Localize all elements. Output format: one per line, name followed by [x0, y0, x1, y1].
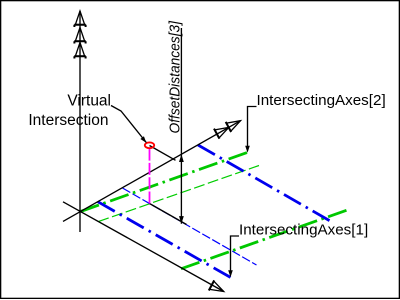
wire IntersectingAxes[2] extension (thin green dashed through plane point)	[98, 166, 259, 222]
dimension arrow bottom (points down)	[179, 216, 184, 224]
wire IntersectingAxes[1] extension (thin blue dashed through plane point)	[123, 188, 257, 265]
arrowheads of up-right axis (double open arrows)	[214, 121, 241, 139]
axis up-right construction line (30 deg)	[63, 121, 241, 222]
svg-text:OffsetDistances[3]: OffsetDistances[3]	[167, 20, 183, 133]
axis down-right construction line (30 deg)	[63, 202, 224, 292]
axis IntersectingAxes[2] segment A (green dash-dot from origin)	[81, 153, 248, 212]
dimension arrow top (points up)	[179, 154, 184, 162]
wire leader Virtual Intersection	[111, 106, 146, 143]
wire leader IntersectingAxes[2]	[248, 107, 257, 149]
wire leader IntersectingAxes[1]	[231, 236, 240, 272]
axis IntersectingAxes[1] segment B (blue dash-dot lower left)	[98, 202, 231, 278]
dimension line OffsetDistances[3] (vertical)	[180, 28, 182, 224]
wire short extension at virtual intersection point	[150, 146, 176, 161]
svg-text:Intersection: Intersection	[28, 112, 108, 129]
wire magenta offset line (vertical dashed)	[149, 149, 151, 204]
svg-text:IntersectingAxes[2]: IntersectingAxes[2]	[257, 92, 386, 109]
arrowheads of vertical axis (triple open arrows)	[74, 11, 86, 59]
node Virtual Intersection marker (red ellipse)	[145, 142, 154, 148]
wire black extension segment through P2 to dimension line	[150, 204, 187, 225]
svg-text:Virtual: Virtual	[67, 93, 111, 110]
axis IntersectingAxes[1] segment A (blue dash-dot upper right)	[198, 145, 330, 221]
axis Z vertical construction line	[79, 11, 81, 232]
svg-text:IntersectingAxes[1]: IntersectingAxes[1]	[239, 222, 368, 239]
axis IntersectingAxes[2] segment B (green dash-dot lower right)	[181, 210, 347, 268]
arrowhead of down-right axis (single open arrow)	[209, 280, 224, 291]
